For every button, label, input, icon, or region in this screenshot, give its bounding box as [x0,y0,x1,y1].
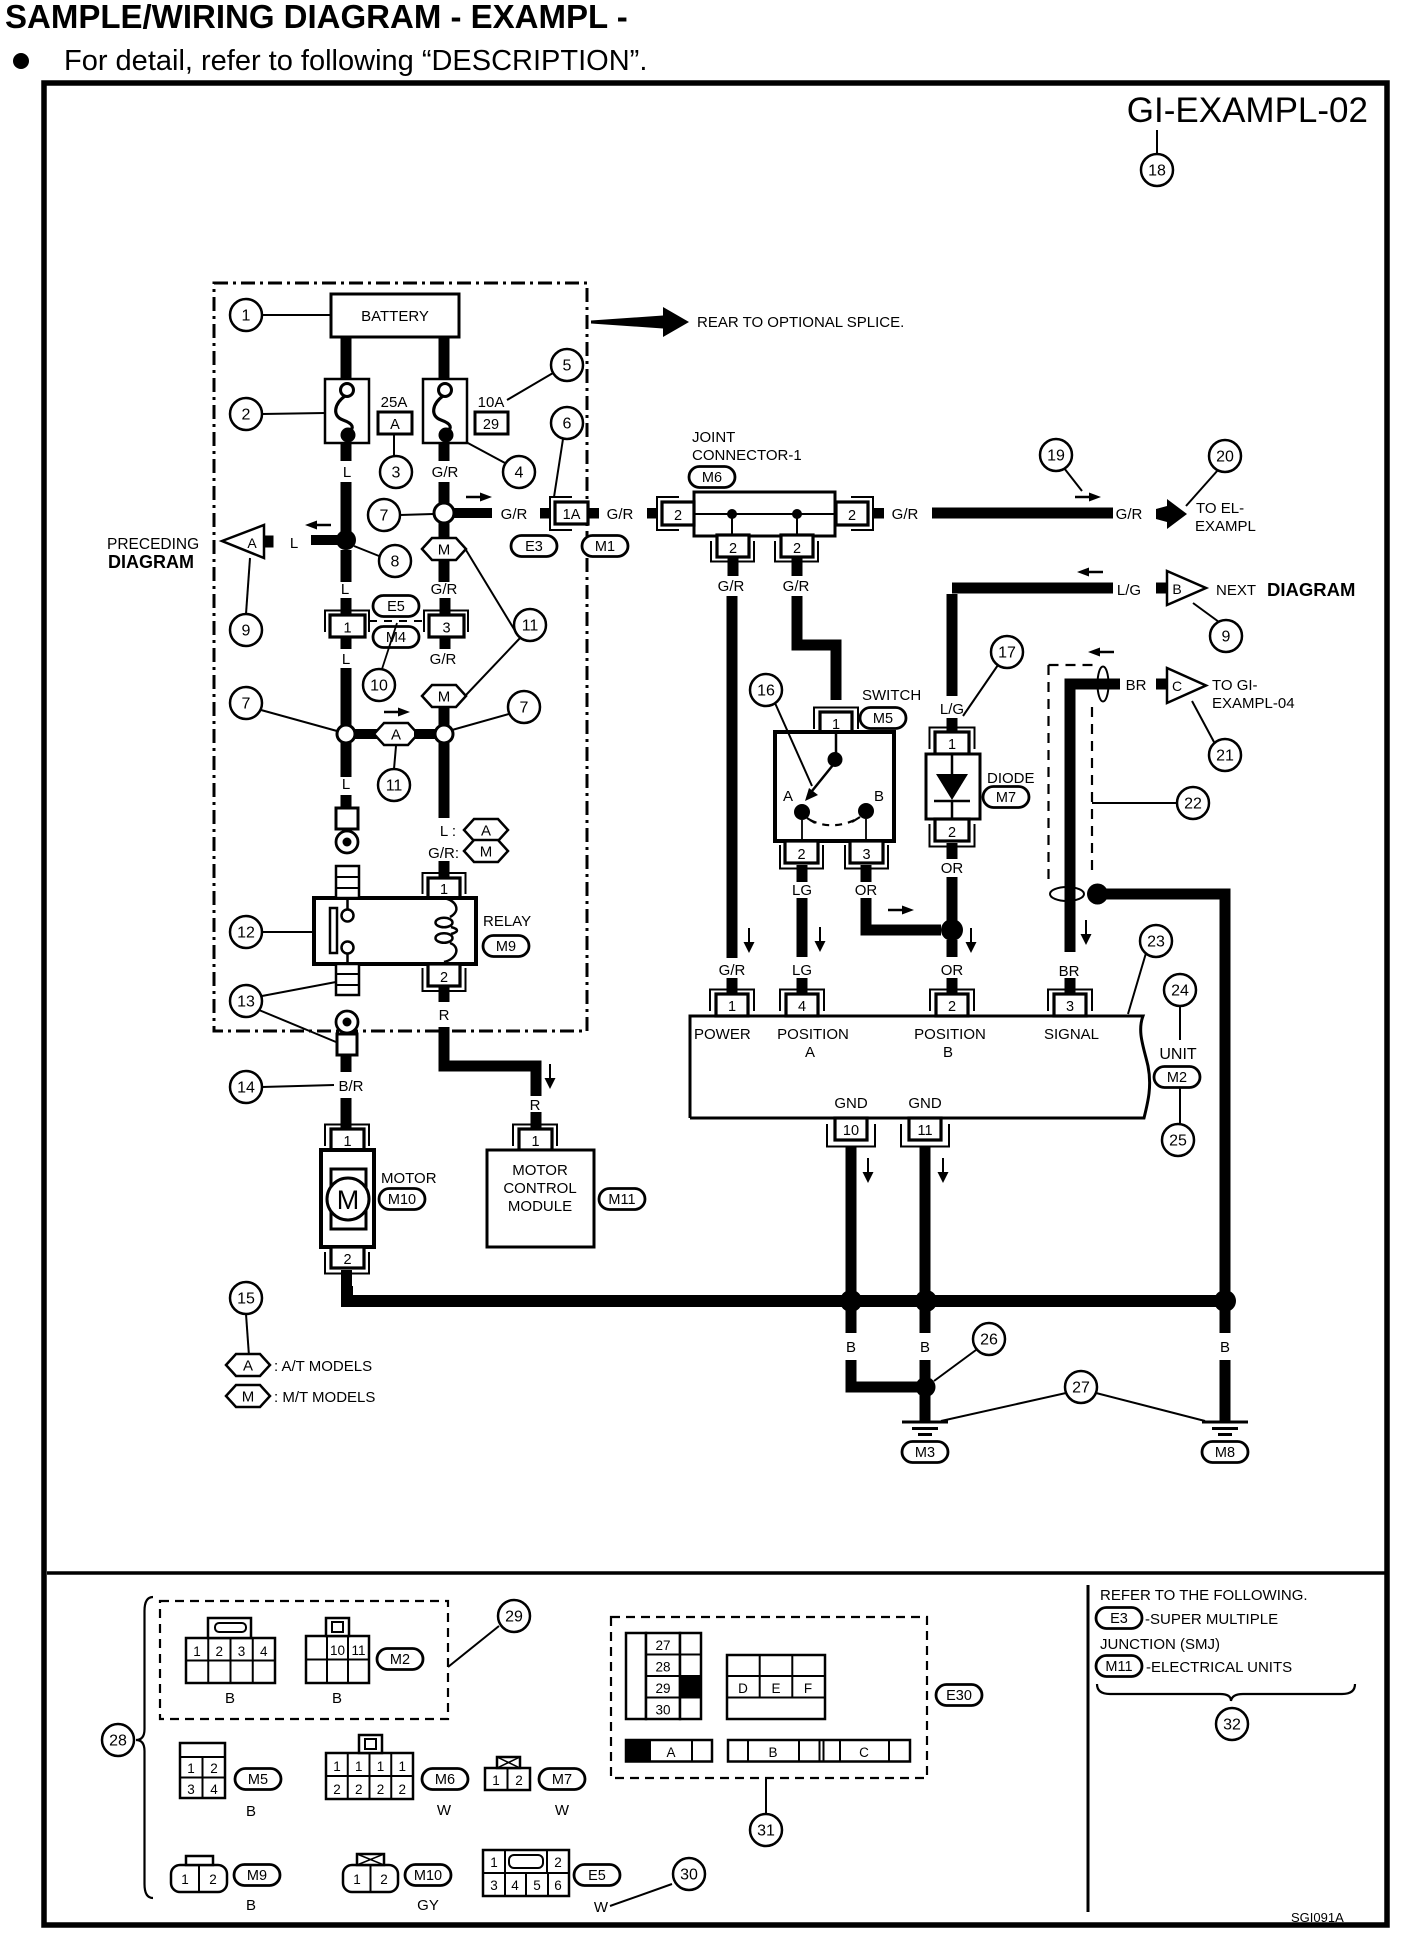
wire BR label-conn [341,1098,352,1110]
leader 9L-triangle [246,558,250,614]
fuse rating box 29 [475,412,508,434]
svg-text:G/R: G/R [432,464,459,481]
svg-text:M: M [480,844,493,861]
wire B left elbow [851,1360,920,1387]
svg-text:13: 13 [237,994,255,1011]
bus dot 3 [1214,1290,1236,1312]
balloon 11 upper [514,609,546,641]
svg-text:3: 3 [238,1644,246,1659]
svg-text:R: R [439,1007,450,1024]
balloon 20 [1209,440,1241,472]
connector M7 drawing [485,1757,530,1790]
wire B mid lower [920,1360,931,1382]
label L/G diode [940,701,964,718]
svg-text:LG: LG [792,882,812,899]
oval M11 [599,1189,645,1210]
balloon 18 [1141,154,1173,186]
balloon 31 [750,1814,782,1846]
balloon 17 [991,636,1023,668]
svg-text:1: 1 [187,1761,195,1776]
label RELAY [483,913,531,930]
diode body [926,754,980,819]
label B 1 [846,1339,856,1356]
svg-text:REFER TO THE FOLLOWING.: REFER TO THE FOLLOWING. [1100,1587,1308,1604]
svg-text:E3: E3 [525,539,543,555]
leader 20-arrow [1186,470,1218,506]
svg-text:A: A [243,1358,253,1375]
arrow down gnd11 [938,1158,949,1183]
svg-text:JUNCTION (SMJ): JUNCTION (SMJ) [1100,1636,1220,1653]
stub black B [1156,583,1167,594]
stub black A flag [264,536,274,548]
svg-text:M3: M3 [915,1445,935,1461]
svg-text:11: 11 [386,778,403,795]
label MOTOR [381,1170,437,1187]
label PRECEDING [107,536,199,553]
leader 21-triangle [1192,701,1214,742]
svg-text:2: 2 [209,1872,217,1887]
svg-text:B: B [874,788,884,805]
open splice left [337,725,355,743]
svg-text:6: 6 [554,1878,562,1893]
leader 10-M4 [382,623,397,669]
svg-text:B: B [1172,581,1181,597]
label W under E5 [594,1899,609,1916]
oval M2 unit [1154,1067,1200,1088]
leader 22 [1092,802,1177,804]
fusible link 10A [423,379,467,443]
grommet symbol lower [337,1034,357,1055]
leader 31 [765,1778,767,1813]
E30 left connector [626,1633,701,1719]
leader 13b [259,1010,336,1042]
leader 4-fuse [466,442,505,463]
svg-text:10: 10 [843,1123,859,1139]
svg-text:For detail, refer to following: For detail, refer to following “DESCRIPT… [64,45,647,77]
balloon 7 right [508,691,540,723]
junction dot OR [941,919,963,941]
balloon 13 [230,985,262,1017]
arrow left LG [1077,568,1103,577]
svg-text:1A: 1A [563,507,581,523]
svg-text:1: 1 [728,999,736,1015]
svg-text:G/R: G/R [430,651,457,668]
svg-text:2: 2 [242,407,251,424]
svg-text:30: 30 [655,1703,670,1718]
label DIAGRAM left [108,552,194,572]
svg-text:M9: M9 [496,939,516,955]
svg-text:10: 10 [330,1643,345,1658]
unit pin2 connector [930,978,974,1016]
relay contact circle top [342,898,354,922]
wire B mid upper [920,1307,931,1333]
svg-text:PRECEDING: PRECEDING [107,536,199,553]
leader 27-M8 [1096,1393,1205,1421]
balloon 14 [230,1071,262,1103]
svg-text:B: B [943,1044,953,1061]
oval E5 [373,596,419,617]
bus dot 1 over [840,1290,862,1312]
label R relay [439,1007,450,1024]
svg-text:OR: OR [855,882,878,899]
leader 7R-splice [452,714,509,730]
leader 7L-splice [261,710,337,731]
unit gnd11 connector [901,1118,949,1147]
svg-text:2: 2 [948,825,956,841]
svg-text:M1: M1 [595,539,615,555]
leader 27-M3 [941,1393,1066,1421]
svg-text:2: 2 [377,1782,385,1797]
svg-text:M10: M10 [388,1192,416,1208]
wire B to ground M3 [920,1395,931,1421]
label POSITION A [777,1026,849,1061]
hexagon M upper [422,538,466,560]
wire GR label-splice [439,482,450,505]
double-ring symbol upper [336,831,358,853]
svg-text:3: 3 [187,1782,195,1797]
brace 32 [1097,1684,1355,1701]
svg-text:19: 19 [1047,448,1065,465]
label SUPER MULTIPLE [1145,1611,1278,1628]
label NEXT [1216,579,1355,600]
wire LG vert [947,594,958,696]
switch pin2 connector [780,841,823,882]
svg-text:A: A [805,1044,815,1061]
leader 11-MhexU [466,550,517,634]
svg-text:4: 4 [798,999,806,1015]
hexagon M/T legend [226,1385,270,1407]
label OR diode [941,860,964,877]
svg-text:M: M [438,542,451,559]
arrow right above GR stub [466,493,492,502]
arrow down BR [1081,920,1092,945]
svg-text:OR: OR [941,860,964,877]
label SWITCH [862,687,921,704]
wire B left upper [846,1307,857,1333]
label CONNECTOR-1 [692,447,802,464]
wire LG horiz [952,583,1113,594]
svg-text:B: B [332,1690,342,1707]
svg-text:8: 8 [391,554,400,571]
svg-text:POWER: POWER [694,1026,751,1043]
svg-text:M5: M5 [248,1772,268,1788]
joint connector body [694,492,835,536]
label REAR TO OPTIONAL SPLICE [697,314,904,331]
svg-text:EXAMPL: EXAMPL [1195,518,1256,535]
joint conn bottom pin2 right [775,535,818,576]
svg-text:23: 23 [1147,934,1165,951]
arrow down LG [815,927,826,952]
svg-text:M: M [242,1389,255,1406]
wire GR jog to switch [797,596,836,700]
label L 2 [341,581,349,598]
unit pin4 connector [780,978,824,1016]
leader 26-dot [934,1350,976,1381]
svg-text:29: 29 [505,1609,523,1626]
relay top striped connector [336,866,359,898]
svg-text:11: 11 [917,1123,932,1139]
leader 5-10A [507,373,553,400]
wire OR diode-dot [947,877,958,922]
svg-text:M8: M8 [1215,1445,1235,1461]
label A/T MODELS [274,1358,372,1375]
svg-text:2: 2 [355,1782,363,1797]
oval E3 note [1096,1608,1142,1629]
balloon 5 [551,349,583,381]
label SGI091A [1291,1910,1344,1925]
leader 3-boxA [393,434,395,456]
label L below conn1 [342,651,350,668]
svg-text:G/R: G/R [431,581,458,598]
wire L label-dot [341,482,352,540]
svg-text:2: 2 [793,541,801,557]
svg-text:7: 7 [242,696,251,713]
svg-text:L: L [342,651,350,668]
ground symbol M8 [1202,1422,1248,1435]
svg-text:G/R: G/R [501,506,528,523]
balloon 28 [102,1724,134,1756]
svg-text:DIAGRAM: DIAGRAM [108,552,194,572]
wire B right lower [1220,1360,1231,1421]
oval M1 [582,536,628,557]
wire GR fuse-label [439,443,450,461]
diode pin1 connector [930,718,975,754]
svg-text:M10: M10 [414,1868,442,1884]
leader 7T-splice [400,514,433,515]
label DIODE [987,770,1035,787]
svg-text:EXAMPL-04: EXAMPL-04 [1212,695,1295,712]
label G/R joint right [892,506,919,523]
svg-text:2: 2 [674,508,682,524]
bus dot 1 [840,1290,862,1312]
grommet symbol upper [336,808,358,829]
stub black 1A left [540,508,551,519]
ground symbol M3 [902,1422,948,1435]
open splice right [435,725,453,743]
svg-text:B: B [246,1803,256,1820]
label L : [440,823,456,840]
svg-text:1: 1 [377,1759,385,1774]
balloon 19 [1040,439,1072,471]
svg-text:TO GI-: TO GI- [1212,677,1258,694]
svg-text:GND: GND [834,1095,868,1112]
svg-text:G/R:: G/R: [428,845,459,862]
balloon 7 top [368,499,400,531]
leader 29-box [448,1626,499,1667]
oval M5 switch [860,708,906,729]
svg-text:E30: E30 [946,1688,972,1704]
svg-text:G/R: G/R [719,962,746,979]
svg-text:G/R: G/R [1116,506,1143,523]
leader 23-unit [1128,953,1146,1014]
wire L splice-label [341,743,352,777]
svg-text:BATTERY: BATTERY [361,308,429,325]
leader 11-Ahex [394,746,396,769]
arrow right OR [888,906,914,915]
label OR sw [855,882,878,899]
svg-text:OR: OR [941,962,964,979]
label B under M5 [246,1803,256,1820]
wire B right upper [1220,1307,1231,1333]
oval M9 bottom [234,1865,280,1886]
oval M7 bottom [539,1769,585,1790]
svg-text:2: 2 [729,541,737,557]
label B 3 [1220,1339,1230,1356]
svg-text:M7: M7 [996,790,1016,806]
bullet [13,53,29,69]
svg-text:6: 6 [563,416,572,433]
balloon 10 [363,669,395,701]
label G/R jc2 [783,578,810,595]
svg-text:5: 5 [563,358,572,375]
svg-text:3: 3 [1066,999,1074,1015]
label G/R EL [1116,506,1143,523]
svg-text:B: B [246,1897,256,1914]
svg-text:SIGNAL: SIGNAL [1044,1026,1099,1043]
svg-text:-SUPER MULTIPLE: -SUPER MULTIPLE [1145,1611,1278,1628]
leader 12-relay [262,931,314,933]
label G/R 1A-left [501,506,528,523]
diagram id GI-EXAMPL-02 [1127,91,1368,130]
svg-text:L: L [290,535,298,552]
svg-text:1: 1 [181,1872,189,1887]
svg-text:F: F [804,1681,812,1696]
wire R relay-MCM [444,1027,536,1096]
label TO EL- [1196,500,1244,517]
svg-text:30: 30 [680,1867,698,1884]
wire GR to unit [727,596,738,958]
leader 18 [1156,130,1158,154]
balloon 12 [230,916,262,948]
svg-text:RELAY: RELAY [483,913,531,930]
svg-text:M6: M6 [435,1772,455,1788]
label POWER [694,1026,751,1043]
label JUNCTION SMJ [1100,1636,1220,1653]
svg-text:18: 18 [1148,163,1166,180]
dashed mate line [369,620,424,622]
relay bottom striped connector [336,964,359,995]
svg-text:3: 3 [392,465,401,482]
svg-text:7: 7 [520,700,529,717]
label 25A [381,394,408,411]
leader 8-dot [354,546,379,556]
svg-text:DIAGRAM: DIAGRAM [1267,579,1355,600]
svg-text:10A: 10A [478,394,505,411]
E30 middle connector [727,1655,825,1719]
label R MCM [530,1097,541,1114]
svg-text:21: 21 [1216,748,1234,765]
svg-text:A: A [783,788,793,805]
oval M6 [689,467,735,488]
svg-text:3: 3 [442,621,450,637]
wire OR jog [866,898,941,930]
svg-text:A: A [391,727,401,744]
svg-text:SWITCH: SWITCH [862,687,921,704]
unit pin1 connector [710,978,754,1016]
svg-text:26: 26 [980,1332,998,1349]
dashed box 29 [160,1601,448,1719]
wire battery right [439,337,450,380]
svg-text:27: 27 [1072,1380,1090,1397]
wire BR stub [341,1055,352,1072]
wire GR MhexL-splice [439,707,450,726]
label G/R: [428,845,459,862]
svg-text:B: B [920,1339,930,1356]
wire GR splice-Mhex [439,522,450,540]
connector M10 drawing [343,1854,398,1892]
E30 strip A [626,1740,712,1762]
label BR [1126,677,1147,694]
stub black joint-left [647,508,658,519]
svg-text:M11: M11 [1105,1659,1132,1675]
svg-text:1: 1 [353,1872,361,1887]
unit body [690,1016,1150,1118]
balloon 27 [1065,1371,1097,1403]
joint conn right pin2 [836,497,884,530]
balloon 26 [973,1323,1005,1355]
svg-text:L: L [342,776,350,793]
motor pin2 connector [325,1247,369,1288]
svg-text:MOTOR: MOTOR [381,1170,437,1187]
balloon 3 [380,456,412,488]
svg-text:2: 2 [333,1782,341,1797]
svg-text:D: D [738,1681,748,1696]
label W under M6 [437,1802,452,1819]
connector E5 drawing [483,1850,569,1896]
svg-text:10: 10 [370,678,388,695]
balloon 30 [673,1858,705,1890]
svg-text:11: 11 [351,1643,365,1658]
svg-text:9: 9 [242,623,251,640]
svg-text:16: 16 [757,683,775,700]
hexagon A/T legend [226,1354,270,1376]
switch pin1 connector [814,708,858,734]
svg-text:17: 17 [998,645,1016,662]
svg-text:L: L [343,464,351,481]
svg-text:1: 1 [398,1759,406,1774]
svg-text:1: 1 [193,1644,201,1659]
svg-text:R: R [530,1097,541,1114]
svg-text:A: A [247,535,257,551]
svg-text:28: 28 [109,1733,127,1750]
leader 13a [262,982,336,996]
wire L dot-label2 [341,550,352,582]
svg-text:NEXT: NEXT [1216,582,1256,599]
svg-text:3: 3 [862,847,870,863]
svg-text:: M/T MODELS: : M/T MODELS [274,1389,375,1406]
fusible link 25A [325,379,369,443]
arrow right above A hex [384,708,410,717]
label B/R [338,1078,363,1095]
svg-text:1: 1 [242,308,251,325]
label G/R below conn3 [430,651,457,668]
svg-text:1: 1 [490,1855,498,1870]
svg-text:CONTROL: CONTROL [503,1180,576,1197]
arrow down GR unit [744,928,755,953]
arrow left at dot [305,521,331,530]
wire BR [1070,684,1120,952]
oval M5 bottom [235,1769,281,1790]
connector grid B (M2 b) [306,1618,369,1683]
svg-text:-ELECTRICAL UNITS: -ELECTRICAL UNITS [1146,1659,1292,1676]
svg-text:1: 1 [343,621,351,637]
svg-text:4: 4 [210,1782,218,1797]
label W under M7 [555,1802,570,1819]
balloon 16 [750,674,782,706]
svg-text:B: B [225,1690,235,1707]
svg-text:M7: M7 [552,1772,572,1788]
svg-text:L: L [341,581,349,598]
